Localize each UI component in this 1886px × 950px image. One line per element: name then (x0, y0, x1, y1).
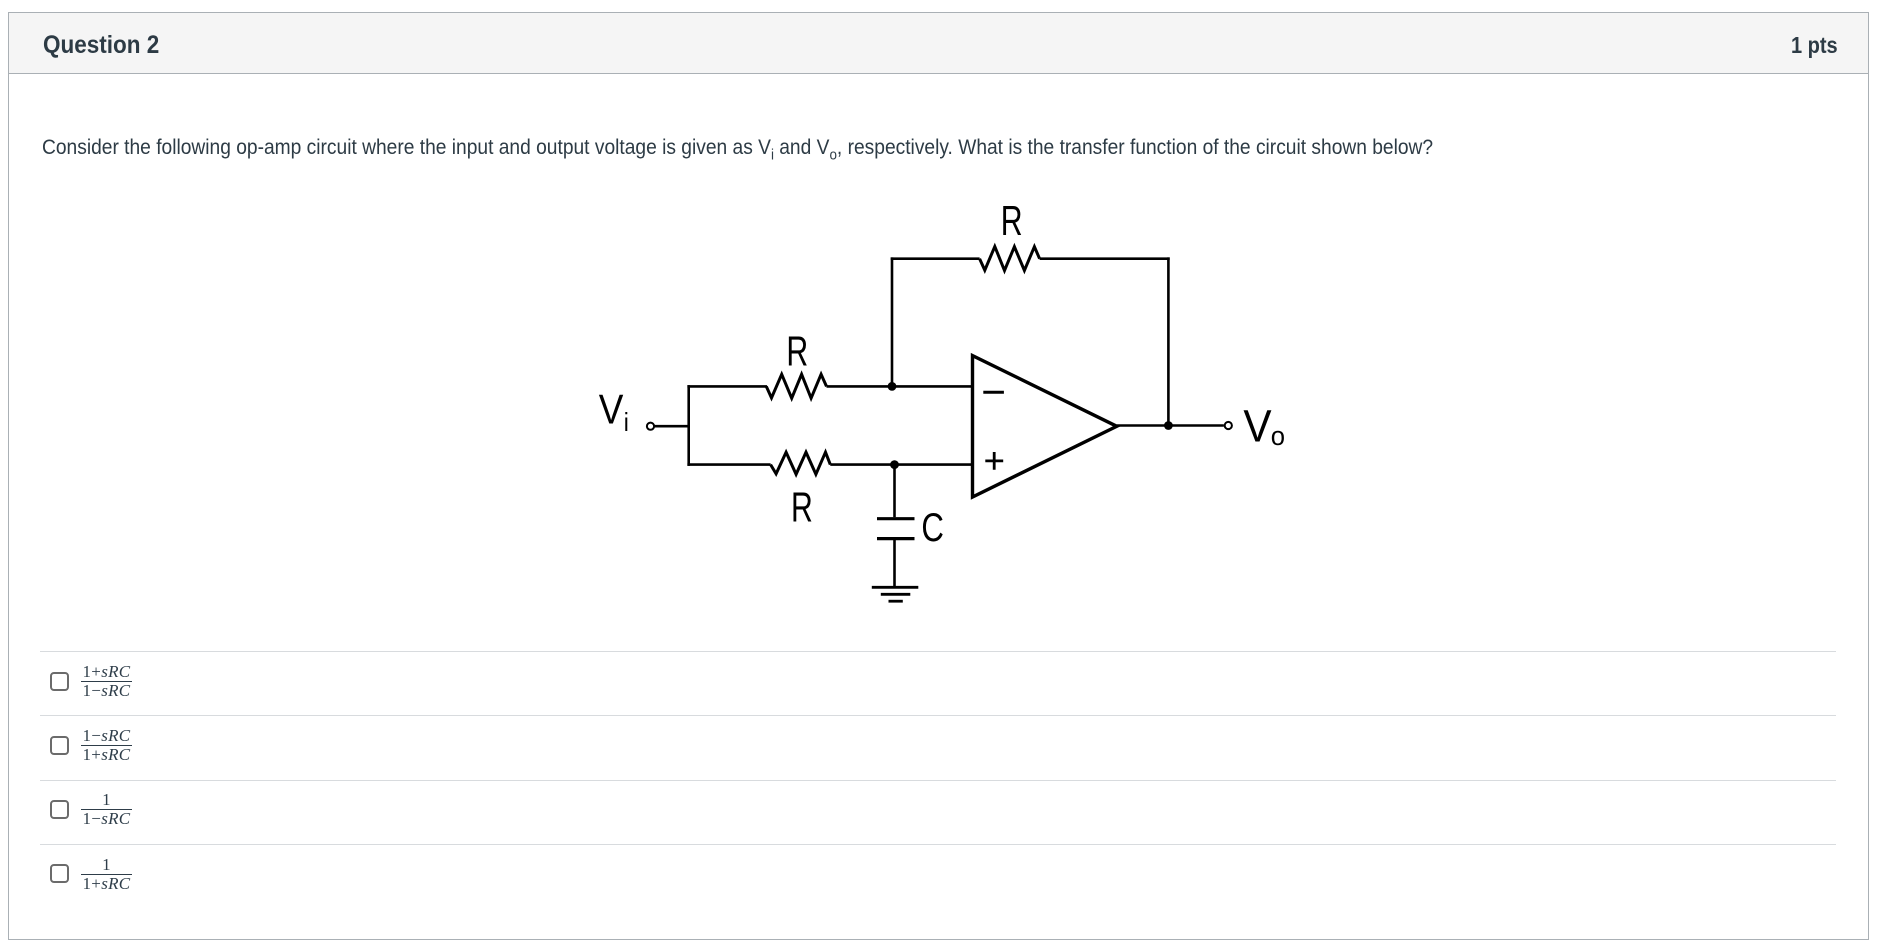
wire input vertical junction (687, 385, 690, 466)
node junction plus-input (890, 460, 899, 469)
op-amp U1 triangle (973, 356, 1117, 497)
capacitor C plate bottom (877, 537, 915, 540)
node Vi terminal circle (647, 423, 654, 430)
answers (40, 651, 1836, 652)
answer option C fraction 1/(1-sRC) (81, 791, 132, 827)
svg-text:C: C (921, 506, 944, 551)
question header bar (8, 12, 1869, 74)
op-amp minus input sign (983, 391, 1004, 394)
resistor R top (zigzag) (766, 374, 826, 398)
wire feedback top lead left (891, 257, 980, 260)
resistor R feedback (zigzag) (980, 247, 1040, 271)
capacitor C plate top (877, 517, 915, 520)
wire top branch lead left (687, 385, 767, 388)
question text (42, 136, 1433, 166)
wire top branch lead right to op-amp (827, 385, 973, 388)
wire Vi to junction (655, 425, 689, 428)
node output junction (1164, 421, 1173, 430)
wire capacitor top lead (893, 465, 896, 518)
svg-text:V: V (1243, 401, 1271, 451)
answer option A fraction (1+sRC)/(1-sRC) (81, 663, 132, 699)
resistor R bottom (zigzag) (771, 452, 831, 474)
wire op-amp output (1117, 424, 1224, 427)
svg-text:o: o (1271, 420, 1285, 451)
wire bottom branch lead right to op-amp (830, 463, 972, 466)
node junction minus-input (888, 382, 897, 391)
wire feedback vertical right (1167, 257, 1170, 425)
answer option B fraction (1-sRC)/(1+sRC) (81, 727, 132, 763)
wire bottom branch lead left (687, 463, 770, 466)
svg-text:R: R (786, 328, 808, 375)
ground symbol (872, 587, 919, 601)
op-amp plus input sign (985, 452, 1003, 470)
svg-text:V: V (599, 386, 624, 433)
wire feedback top lead right (1040, 257, 1170, 260)
wire capacitor bottom lead (893, 540, 896, 587)
wire feedback vertical left (891, 257, 894, 386)
svg-text:R: R (791, 483, 813, 530)
answer option D fraction 1/(1+sRC) (81, 856, 132, 892)
svg-text:R: R (1001, 197, 1023, 244)
node Vo terminal circle (1225, 422, 1232, 429)
svg-text:i: i (624, 409, 629, 438)
